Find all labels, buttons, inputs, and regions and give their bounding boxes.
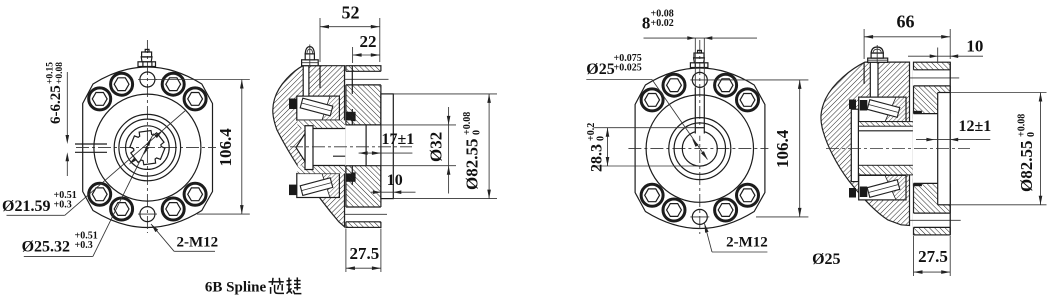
dimension 10 (pilot length) <box>371 191 416 193</box>
shoulder band top <box>298 120 352 128</box>
svg-text:106.4: 106.4 <box>216 128 235 167</box>
dimension Ø32 <box>381 124 456 126</box>
svg-text:28.3: 28.3 <box>589 144 606 172</box>
shaft bore cavity <box>305 129 359 166</box>
bolt hole 8 <box>663 199 685 221</box>
dimension 27.5 <box>913 236 915 276</box>
seal rings <box>849 100 856 110</box>
joint line through plate <box>351 66 353 94</box>
tapered roller top <box>867 100 900 118</box>
horizontal centerline <box>76 147 216 149</box>
M12 port hole bottom <box>140 207 155 222</box>
seal counterbore circle <box>114 114 180 180</box>
dimension 22 <box>352 47 354 63</box>
bearing pocket top <box>859 97 906 122</box>
bolt hole 7 <box>715 199 737 221</box>
output shaft hollow section <box>851 122 934 127</box>
bore end face <box>358 125 360 166</box>
bolt hole 7 <box>162 198 184 220</box>
dimension Ø82.55 +0.08/0 <box>394 93 497 95</box>
svg-text:2-M12: 2-M12 <box>177 235 219 251</box>
horizontal centerline <box>628 148 768 150</box>
svg-text:27.5: 27.5 <box>918 247 948 266</box>
central aperture Ø32 <box>345 125 381 166</box>
view4: cross-section of keyed shaft model <box>812 12 1046 277</box>
mounting flange plate section <box>914 62 951 235</box>
central aperture <box>913 114 951 184</box>
shoulder band bottom <box>298 165 352 173</box>
svg-text:0: 0 <box>596 136 607 141</box>
svg-text:6B Spline: 6B Spline <box>205 280 267 296</box>
bearing pocket bottom <box>859 175 906 200</box>
counterbore circles <box>669 118 731 180</box>
spline major circle <box>126 126 170 170</box>
dimension 66 <box>863 29 865 59</box>
section centerline <box>826 148 970 150</box>
svg-text:+0.02: +0.02 <box>651 18 674 29</box>
vertical centerline <box>146 40 148 233</box>
bolt hole 4 <box>89 88 111 110</box>
dimension 27.5 <box>345 229 347 273</box>
spline collar <box>305 126 313 170</box>
bleed fitting top <box>138 62 156 67</box>
mounting flange plate section <box>346 66 381 228</box>
keyway slot <box>695 128 704 136</box>
bore line Ø25 <box>858 130 934 132</box>
tapered roller bottom <box>867 180 900 198</box>
svg-text:0: 0 <box>472 130 483 135</box>
svg-text:0: 0 <box>1026 132 1037 137</box>
pilot boss Ø82.55 <box>381 94 393 199</box>
svg-text:10: 10 <box>966 37 983 56</box>
svg-text:52: 52 <box>342 3 360 23</box>
dimension 6-6.25 +0.15/+0.08 <box>66 72 68 140</box>
drilled passage <box>870 63 878 97</box>
shaft cavity <box>851 122 934 175</box>
bolt hole 2 <box>663 74 685 96</box>
flange outline <box>635 68 765 229</box>
svg-text:+0.3: +0.3 <box>75 240 93 251</box>
M12 port hole top <box>140 72 155 87</box>
housing joint line <box>863 62 865 84</box>
M12 port hole top <box>692 72 707 87</box>
M12 port hole bottom (section) <box>913 213 951 227</box>
bolt hole 8 <box>111 198 133 220</box>
pilot boss circle Ø82.55 <box>94 94 201 201</box>
dimension 8 +0.08/+0.02 keyway width <box>694 38 696 90</box>
M12 port hole top (section) <box>345 71 381 85</box>
dimension Ø82.55 +0.08/0 <box>951 92 1047 94</box>
shaft end face <box>933 122 935 175</box>
pilot boss Ø82.55 (recessed) <box>938 93 951 205</box>
plate joint line lower <box>351 109 353 185</box>
svg-text:Ø21.59: Ø21.59 <box>2 198 50 215</box>
flange outline <box>83 67 213 228</box>
svg-text:Ø25: Ø25 <box>812 251 840 268</box>
svg-text:2-M12: 2-M12 <box>726 235 768 251</box>
dimension 10 (pilot depth) <box>937 48 939 63</box>
M12 port hole bottom (section) <box>345 207 381 222</box>
bolt hole 5 <box>184 183 206 205</box>
M12 port hole top (section) <box>913 70 951 86</box>
svg-text:+0.3: +0.3 <box>54 200 72 211</box>
view1: front flange view (6B spline model) <box>2 40 301 296</box>
section centerline <box>290 146 412 148</box>
bearing pocket bottom <box>297 174 340 198</box>
keyed bore Ø25 <box>682 131 717 166</box>
bell housing section <box>821 62 910 225</box>
dimension 12±1 <box>916 139 990 141</box>
view3: front flange view (keyed shaft model) <box>586 9 808 253</box>
svg-text:22: 22 <box>360 32 377 51</box>
svg-text:Ø82.55: Ø82.55 <box>1017 141 1036 192</box>
seal rings <box>289 99 297 110</box>
bolt hole 6 <box>641 184 663 206</box>
svg-text:6-6.25: 6-6.25 <box>48 85 64 124</box>
bolt hole 1 <box>715 74 737 96</box>
bearing pocket top <box>297 96 340 120</box>
bleed fitting section (dome) <box>868 58 888 62</box>
bleed fitting top <box>690 63 708 68</box>
svg-text:+0.08: +0.08 <box>55 62 65 84</box>
svg-text:27.5: 27.5 <box>350 244 380 263</box>
6B spline bore <box>130 131 165 165</box>
bolt hole 3 <box>184 88 206 110</box>
tapered roller bottom <box>300 178 333 196</box>
svg-text:17±1: 17±1 <box>382 131 415 148</box>
bolt hole 4 <box>641 89 663 111</box>
svg-text:8: 8 <box>642 14 651 33</box>
counterbore circle <box>119 119 176 176</box>
svg-text:Ø25.32: Ø25.32 <box>22 239 70 256</box>
svg-text:Ø82.55: Ø82.55 <box>463 139 482 190</box>
dimension 106.4 <box>156 79 250 81</box>
drill cone <box>296 134 305 162</box>
bleed fitting section (dome) <box>302 60 319 66</box>
bolt hole 3 <box>737 89 759 111</box>
bolt hole 2 <box>111 73 133 95</box>
bolt hole 5 <box>737 184 759 206</box>
svg-text:66: 66 <box>897 12 915 32</box>
svg-text:106.4: 106.4 <box>773 129 792 168</box>
dimension 52 <box>319 18 321 62</box>
tapered roller top <box>300 98 333 116</box>
svg-text:Ø32: Ø32 <box>427 132 446 162</box>
vertical centerline <box>699 40 701 234</box>
M12 port hole bottom <box>692 209 707 224</box>
dimension 106.4 <box>708 79 809 81</box>
dimension 28.3 +0.2/0 <box>594 127 695 129</box>
bore plug <box>851 109 858 181</box>
dimension 17±1 <box>359 152 413 154</box>
housing joint line <box>319 66 321 88</box>
svg-text:12±1: 12±1 <box>959 118 992 135</box>
side orifice 6.25 <box>75 143 107 145</box>
bolt hole 1 <box>162 73 184 95</box>
svg-text:+0.025: +0.025 <box>614 63 642 74</box>
pilot boss circle <box>646 95 753 202</box>
svg-text:Ø25: Ø25 <box>586 61 614 78</box>
drilled passage <box>303 66 309 95</box>
bolt hole 6 <box>89 183 111 205</box>
svg-text:+0.15: +0.15 <box>46 62 56 84</box>
svg-text:10: 10 <box>387 172 403 189</box>
bell housing section <box>273 66 345 227</box>
view2: cross-section of spline model <box>273 3 497 273</box>
